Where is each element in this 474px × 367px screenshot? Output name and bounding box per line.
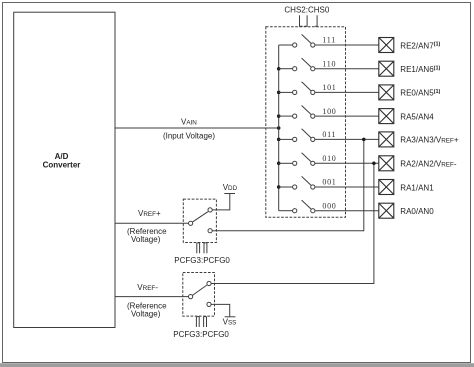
switch VREF- throw to RA2 <box>207 281 211 285</box>
wire channel 111 to pin <box>315 44 379 46</box>
wire channel 000 to pin <box>315 210 379 212</box>
svg-text:CHS2:CHS0: CHS2:CHS0 <box>284 6 329 15</box>
wire channel 011 to pin <box>315 138 379 140</box>
svg-text:RA2/AN2/VREF-: RA2/AN2/VREF- <box>400 160 457 169</box>
switch S010 throw contact <box>311 161 315 165</box>
svg-text:Voltage): Voltage) <box>131 310 161 319</box>
svg-text:001: 001 <box>322 178 336 187</box>
bus corner row 111 <box>278 44 280 46</box>
switch S110 arm (open) <box>302 58 311 67</box>
VREF+ source select block (dashed) <box>183 199 216 242</box>
wire channel 110 to pin <box>315 68 379 70</box>
wire channel 010 to pin <box>315 162 379 164</box>
switch S001 pole contact <box>293 185 297 189</box>
switch VREF+ pole contact <box>189 221 193 225</box>
switch S001 arm (open) <box>302 176 311 185</box>
switch S111 arm (open) <box>302 34 311 43</box>
switch S010 arm (open) <box>302 153 311 162</box>
wire bus to switch 110 <box>279 68 293 70</box>
pin RE0 (I/O pad) <box>379 85 394 100</box>
svg-text:100: 100 <box>322 107 336 116</box>
switch S000 arm (open) <box>302 200 311 209</box>
pin RE1 (I/O pad) <box>379 61 394 76</box>
net VREF- to RA2 pin (wire) <box>211 163 374 283</box>
switch VREF+ throw to RA3 <box>208 229 212 233</box>
wire bus to switch 000 <box>279 210 293 212</box>
switch S110 throw contact <box>311 67 315 71</box>
control lines PCFG3:PCFG0 (VREF- block) <box>196 317 206 327</box>
svg-text:110: 110 <box>322 59 336 68</box>
pin RA1 (I/O pad) <box>379 180 394 195</box>
bus corner row 000 <box>278 210 280 212</box>
junction bus row 001 <box>277 185 281 189</box>
svg-text:RA1/AN1: RA1/AN1 <box>400 183 434 192</box>
pin RA5 (I/O pad) <box>379 109 394 124</box>
wire bus to switch 101 <box>279 91 293 93</box>
svg-text:VREF-: VREF- <box>137 283 158 292</box>
wire analog bus <box>278 45 280 211</box>
wire VREF+ throw to VDD rail <box>212 194 230 210</box>
svg-text:VDD: VDD <box>223 183 238 192</box>
switch VREF+ throw to VDD <box>208 208 212 212</box>
switch S111 throw contact <box>311 43 315 47</box>
switch VREF- throw to VSS <box>207 302 211 306</box>
switch S111 pole contact <box>293 43 297 47</box>
svg-text:RA0/AN0: RA0/AN0 <box>400 207 434 216</box>
select line CHS2 <box>300 15 303 26</box>
switch S011 throw contact <box>311 137 315 141</box>
pin RA0 (I/O pad) <box>379 203 394 218</box>
wire bus to switch 011 <box>279 138 293 140</box>
svg-text:Converter: Converter <box>43 161 81 170</box>
svg-text:VSS: VSS <box>223 317 237 326</box>
analog input mux (dashed box) <box>266 27 346 217</box>
svg-text:101: 101 <box>322 83 336 92</box>
junction bus row 010 <box>277 162 281 166</box>
junction VREF+ net at RA3 row <box>362 138 366 142</box>
switch VREF+ arm <box>192 212 208 222</box>
switch S101 throw contact <box>311 90 315 94</box>
switch S011 pole contact <box>293 137 297 141</box>
switch S101 pole contact <box>293 90 297 94</box>
junction VAIN to analog bus <box>277 126 281 130</box>
VREF- source select block (dashed) <box>183 273 215 317</box>
svg-text:VREF+: VREF+ <box>138 209 161 218</box>
switch S101 arm (open) <box>302 82 311 91</box>
switch S001 throw contact <box>311 185 315 189</box>
svg-text:RA5/AN4: RA5/AN4 <box>400 112 434 121</box>
svg-text:(Input Voltage): (Input Voltage) <box>163 131 215 140</box>
net VREF+ to RA3 pin (wire) <box>212 139 364 230</box>
ground VSS (rail bar) <box>225 316 236 318</box>
control lines PCFG3:PCFG0 (VREF+ block) <box>197 243 207 253</box>
switch S100 throw contact <box>311 114 315 118</box>
switch S010 pole contact <box>293 161 297 165</box>
switch S100 arm (open) <box>302 106 311 115</box>
pin RE2 (I/O pad) <box>379 38 394 53</box>
wire channel 001 to pin <box>315 186 379 188</box>
svg-text:PCFG3:PCFG0: PCFG3:PCFG0 <box>173 330 229 339</box>
switch VREF- pole contact <box>189 295 193 299</box>
wire bus to switch 111 <box>279 44 293 46</box>
switch S110 pole contact <box>293 67 297 71</box>
svg-text:010: 010 <box>322 154 336 163</box>
junction bus row 101 <box>277 91 281 95</box>
svg-text:000: 000 <box>322 201 336 210</box>
junction bus row 011 <box>277 138 281 142</box>
wire VREF- throw to VSS <box>211 304 230 316</box>
block A/D Converter <box>14 12 115 327</box>
svg-text:RA3/AN3/VREF+: RA3/AN3/VREF+ <box>400 136 459 145</box>
junction bus row 110 <box>277 67 281 71</box>
junction VREF- net at RA2 row <box>372 162 376 166</box>
svg-text:PCFG3:PCFG0: PCFG3:PCFG0 <box>174 256 230 265</box>
switch S100 pole contact <box>293 114 297 118</box>
power VDD (rail bar) <box>224 193 235 195</box>
wire VREF+ from A/D <box>115 222 189 224</box>
wire channel 100 to pin <box>315 115 379 117</box>
svg-text:111: 111 <box>322 36 336 45</box>
junction bus row 100 <box>277 114 281 118</box>
wire bus to switch 001 <box>279 186 293 188</box>
select line CHS1 <box>304 15 307 26</box>
switch S011 arm (open) <box>302 129 311 138</box>
select line CHS0 <box>315 15 317 26</box>
switch VREF- arm <box>192 285 206 295</box>
pin RA2 (I/O pad) <box>379 156 394 171</box>
wire bus to switch 010 <box>279 162 293 164</box>
wire bus to switch 100 <box>279 115 293 117</box>
wire channel 101 to pin <box>315 91 379 93</box>
svg-text:011: 011 <box>322 130 336 139</box>
svg-text:VAIN: VAIN <box>181 118 197 127</box>
svg-text:Voltage): Voltage) <box>131 235 161 244</box>
wire VREF- from A/D <box>115 296 189 298</box>
pin RA3 (I/O pad) <box>379 132 394 147</box>
switch S000 pole contact <box>293 209 297 213</box>
wire VAIN <box>115 127 279 129</box>
switch S000 throw contact <box>311 209 315 213</box>
